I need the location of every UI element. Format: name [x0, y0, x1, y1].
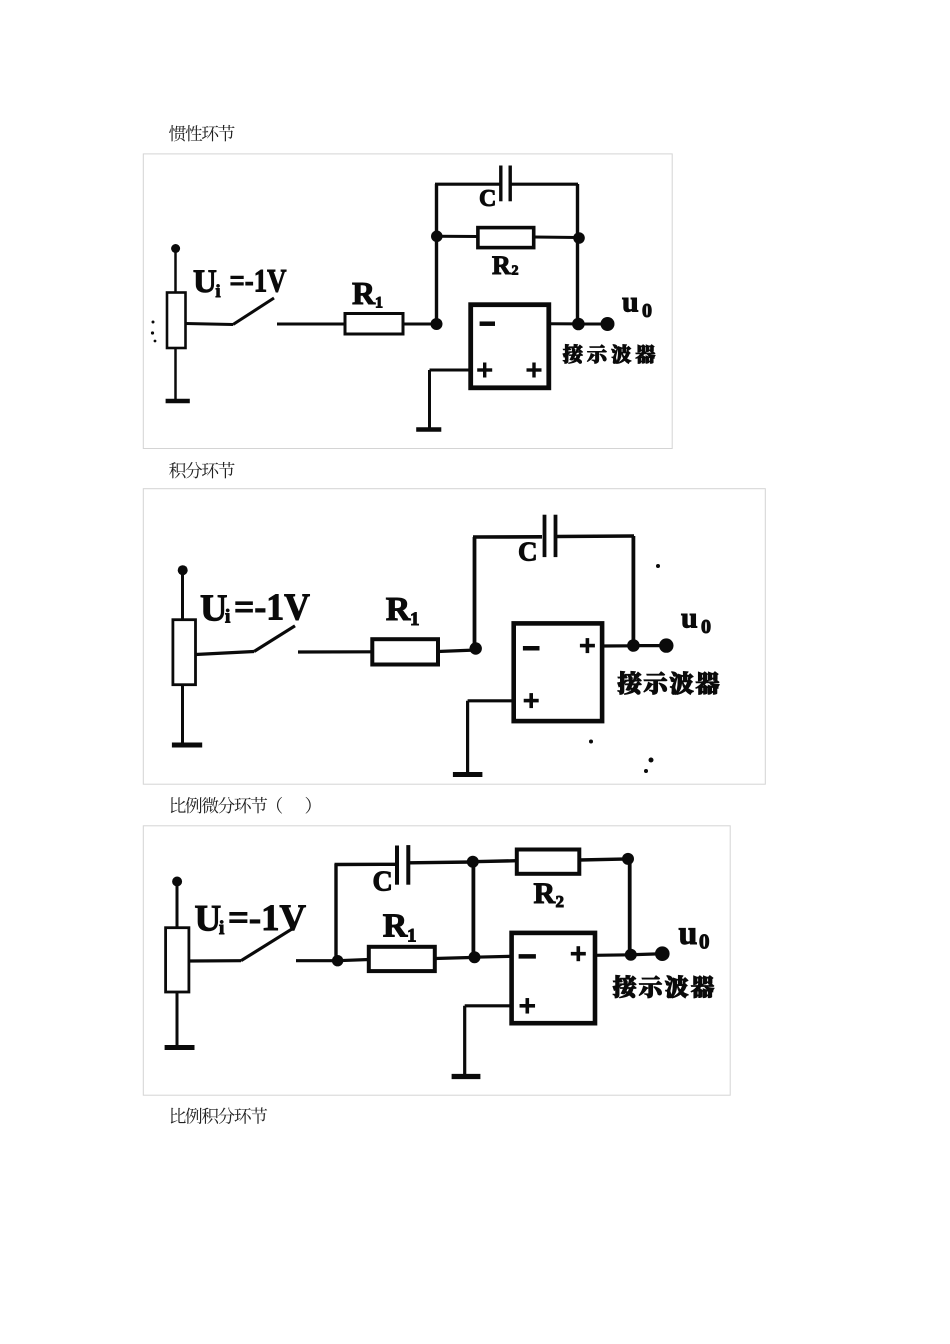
svg-text:2: 2 [512, 264, 519, 279]
svg-text:1: 1 [407, 926, 417, 947]
svg-text:R: R [383, 908, 408, 945]
svg-text:R: R [492, 251, 511, 280]
svg-text:1: 1 [375, 295, 383, 312]
svg-text:2: 2 [556, 892, 565, 911]
svg-text:u: u [679, 915, 698, 952]
svg-text:U: U [193, 264, 217, 300]
svg-text:R: R [352, 275, 376, 311]
svg-text:C: C [373, 867, 393, 898]
svg-text:u: u [622, 286, 639, 319]
svg-text:U: U [195, 899, 222, 940]
svg-text:u: u [681, 602, 698, 635]
svg-text:U: U [200, 588, 227, 630]
svg-text:=-1V: =-1V [228, 898, 306, 939]
svg-text:C: C [518, 537, 538, 567]
svg-text:=-1V: =-1V [230, 264, 287, 300]
svg-text:R: R [534, 877, 556, 910]
svg-text:=-1V: =-1V [234, 587, 311, 629]
svg-text:C: C [479, 186, 496, 212]
svg-text:i: i [216, 281, 221, 301]
svg-text:0: 0 [642, 300, 652, 322]
svg-text:i: i [219, 918, 224, 939]
svg-text:R: R [386, 591, 411, 628]
svg-text:0: 0 [699, 930, 710, 954]
svg-text:0: 0 [701, 616, 711, 638]
svg-text:i: i [225, 607, 230, 628]
svg-text:1: 1 [410, 609, 420, 630]
